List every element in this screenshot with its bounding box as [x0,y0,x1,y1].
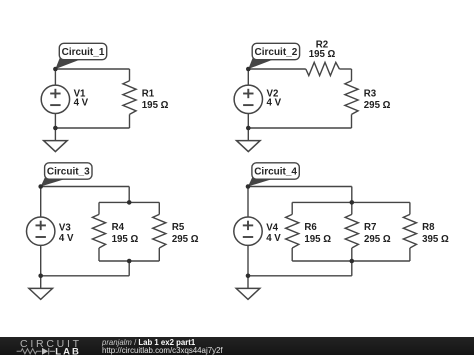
svg-text:R1: R1 [142,88,155,99]
wire bottom C1 [55,127,129,129]
wire leg-upper R7 [351,202,353,214]
svg-text:4 V: 4 V [266,233,281,244]
wire stub-top C4 [351,187,353,203]
wire bottom bar C4 [292,260,410,262]
wire right-upper C1 [129,69,131,81]
wire leg-lower R4 [98,248,100,261]
ground C3 [29,276,53,300]
wire top C4 [248,186,352,188]
svg-text:295 Ω: 295 Ω [364,234,391,245]
footer bar [0,337,474,356]
junction bottom bar C4 [350,259,355,264]
resistor R2 [306,40,340,76]
svg-text:4 V: 4 V [74,98,89,109]
svg-text:195 Ω: 195 Ω [112,234,139,245]
wire top C1 [55,68,129,70]
svg-text:4 V: 4 V [267,98,282,109]
svg-text:195 Ω: 195 Ω [142,100,169,111]
node bottom C3 [38,274,43,279]
resistor R8 [403,214,449,248]
wire bottom C2 [248,127,351,129]
voltage source V3 [27,217,74,245]
node A4 top [246,184,251,189]
voltage source V4 [234,217,281,245]
footer title text [102,338,195,347]
svg-text:395 Ω: 395 Ω [422,234,449,245]
node A1 top [53,67,58,72]
voltage source V2 [234,85,281,113]
wire left-lower C3 [40,245,42,275]
wire leg-upper R6 [291,202,293,214]
wire leg-upper R4 [98,202,100,214]
resistor R5 [153,214,199,248]
label balloon Circuit_4 [248,163,299,187]
svg-text:R4: R4 [112,222,125,233]
wire left-lower C4 [247,245,249,275]
svg-text:195 Ω: 195 Ω [304,234,331,245]
resistor R3 [345,81,391,115]
svg-text:295 Ω: 295 Ω [172,234,199,245]
wire bottom C4 [248,275,352,277]
svg-text:R3: R3 [364,88,377,99]
svg-text:R5: R5 [172,222,185,233]
svg-text:Circuit_4: Circuit_4 [254,167,297,178]
svg-text:4 V: 4 V [59,233,74,244]
CircuitLab logo [0,337,92,356]
resistor R6 [286,214,332,248]
junction bottom bar C3 [127,259,132,264]
svg-text:Circuit_2: Circuit_2 [255,47,298,58]
wire leg-upper R5 [158,202,160,214]
wire leg-lower R7 [351,248,353,261]
junction top bar C3 [127,200,132,205]
node bottom C4 [246,274,251,279]
wire leg-lower R5 [158,248,160,261]
ground C2 [237,128,261,152]
wire right-upper C2 [351,69,353,81]
svg-text:R8: R8 [422,222,435,233]
label balloon Circuit_1 [55,43,106,69]
node A2 top [246,67,251,72]
ground C4 [236,276,260,300]
wire right-lower C1 [129,114,131,128]
svg-text:R6: R6 [304,222,317,233]
footer url text [102,346,223,355]
wire leg-upper R8 [409,202,411,214]
ground C1 [44,128,68,152]
wire top-right C2 [339,68,351,70]
wire left-upper C1 [54,69,56,85]
node bottom C2 [246,126,251,131]
wire leg-lower R6 [291,248,293,261]
wire left-upper C3 [40,187,42,218]
node A3 top [38,184,43,189]
label balloon Circuit_2 [248,43,299,69]
label balloon Circuit_3 [41,163,92,187]
voltage source V1 [41,85,88,113]
svg-text:LAB: LAB [55,346,81,356]
wire right-lower C2 [351,114,353,128]
wire left-lower C1 [54,114,56,129]
svg-text:195 Ω: 195 Ω [309,49,336,60]
svg-text:295 Ω: 295 Ω [364,100,391,111]
junction top bar C4 [350,200,355,205]
wire left-upper C2 [247,69,249,85]
wire left-upper C4 [247,187,249,218]
wire stub-bottom C3 [128,261,130,276]
wire stub-bottom C4 [351,261,353,276]
wire leg-lower R8 [409,248,411,261]
wire stub-top C3 [128,187,130,203]
node bottom C1 [53,126,58,131]
wire bottom bar C3 [99,260,159,262]
wire bottom C3 [41,275,130,277]
svg-text:Circuit_3: Circuit_3 [47,167,90,178]
resistor R7 [345,214,391,248]
wire left-lower C2 [247,114,249,129]
svg-text:R7: R7 [364,222,376,233]
wire top-left C2 [248,68,305,70]
resistor R1 [123,81,169,115]
svg-text:Circuit_1: Circuit_1 [62,47,105,58]
wire top bar C3 [99,201,159,203]
wire top bar C4 [292,201,410,203]
resistor R4 [92,214,138,248]
wire top C3 [41,186,130,188]
